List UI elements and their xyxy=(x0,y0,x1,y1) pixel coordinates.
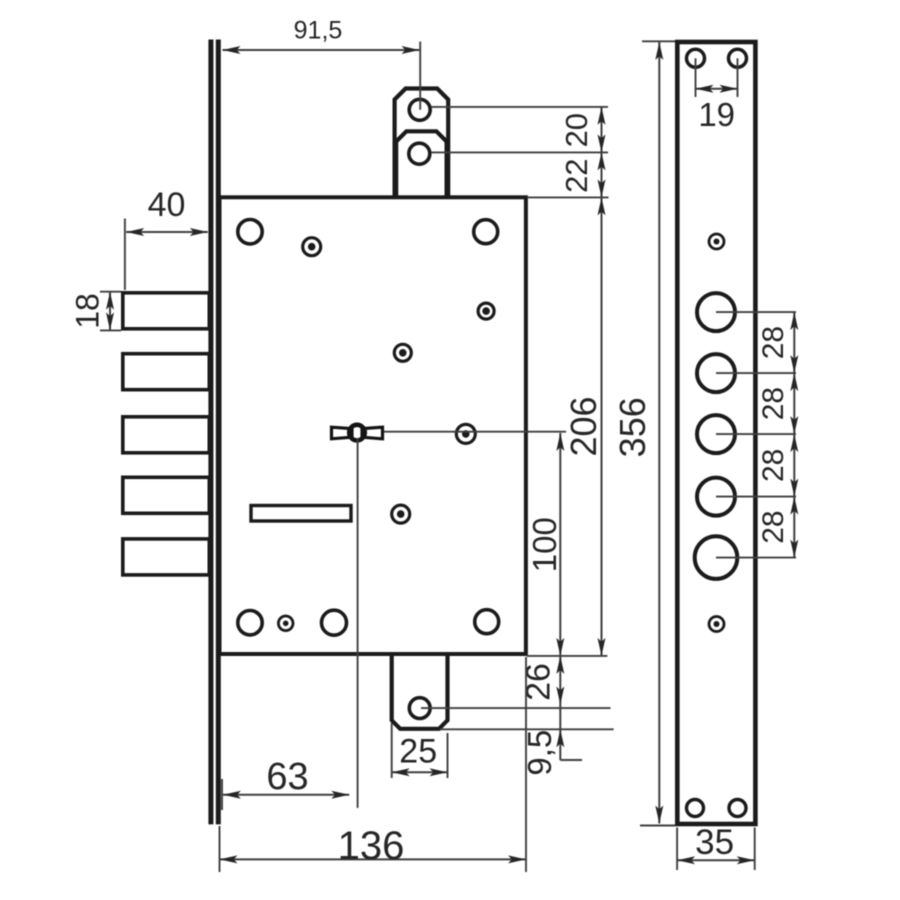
svg-text:136: 136 xyxy=(338,824,405,868)
svg-text:28: 28 xyxy=(757,326,790,359)
svg-text:19: 19 xyxy=(698,96,735,133)
svg-text:28: 28 xyxy=(757,449,790,482)
svg-text:25: 25 xyxy=(399,733,437,771)
svg-text:35: 35 xyxy=(695,823,734,862)
svg-text:28: 28 xyxy=(757,510,790,543)
svg-text:100: 100 xyxy=(526,517,563,572)
svg-text:206: 206 xyxy=(563,396,604,456)
svg-text:20: 20 xyxy=(559,113,594,147)
svg-text:356: 356 xyxy=(612,397,653,457)
svg-text:91,5: 91,5 xyxy=(294,17,343,45)
svg-text:22: 22 xyxy=(559,158,594,192)
svg-text:63: 63 xyxy=(266,756,308,798)
svg-text:40: 40 xyxy=(148,186,186,224)
svg-text:28: 28 xyxy=(757,387,790,420)
svg-text:18: 18 xyxy=(70,293,106,329)
